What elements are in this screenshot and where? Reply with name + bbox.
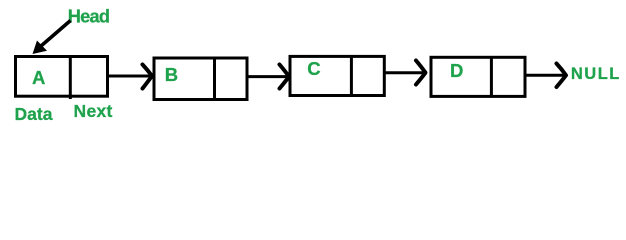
label A	[32, 67, 45, 88]
arrow A to B	[108, 65, 153, 89]
arrow D to NULL	[525, 64, 566, 88]
svg-text:C: C	[307, 58, 320, 79]
node C box	[290, 56, 384, 96]
svg-text:A: A	[32, 67, 45, 88]
label D	[450, 60, 463, 81]
label Next	[74, 101, 113, 121]
svg-text:D: D	[450, 60, 463, 81]
node B box	[154, 58, 247, 101]
arrow C to D	[384, 61, 426, 85]
label Head	[68, 6, 109, 26]
label NULL	[571, 65, 621, 83]
svg-text:Next: Next	[74, 101, 113, 121]
node A box	[16, 57, 108, 100]
svg-text:B: B	[165, 64, 178, 85]
arrow B to C	[247, 65, 289, 89]
label B	[165, 64, 178, 85]
svg-text:Head: Head	[68, 6, 109, 26]
head pointer arrow	[33, 21, 71, 55]
label Data	[15, 104, 53, 124]
svg-text:NULL: NULL	[571, 65, 621, 83]
svg-text:Data: Data	[15, 104, 53, 124]
node D box	[431, 57, 525, 97]
label C	[307, 58, 320, 79]
